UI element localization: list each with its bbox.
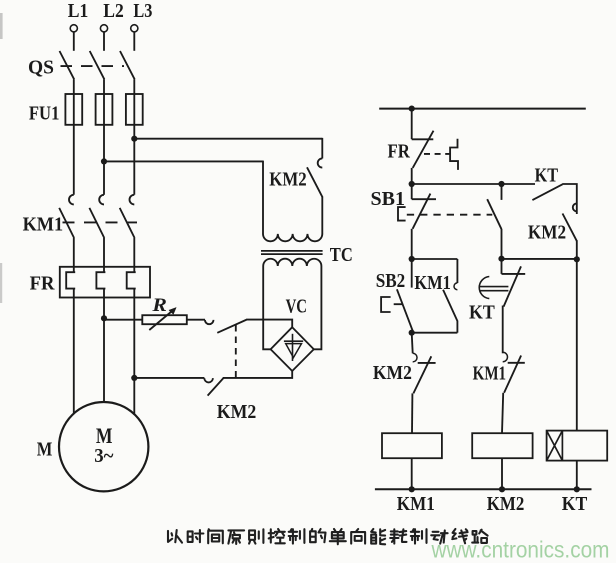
- thermal relay FR heater element phase 3: [127, 272, 136, 288]
- wire phase 2 junction to motor: [103, 318, 105, 402]
- node A junction dot: [409, 181, 415, 187]
- svg-text:KM2: KM2: [528, 222, 566, 244]
- wire TC secondary left to rectifier: [263, 266, 271, 349]
- svg-text:KM2: KM2: [373, 362, 412, 384]
- wire top rail to FR contact: [411, 109, 413, 140]
- rectifier VC bridge diamond: [271, 327, 314, 371]
- wire QS to FU1 pole 1: [73, 79, 75, 94]
- wire junction to resistor R: [104, 319, 142, 321]
- contactor KM1 NO auxiliary contact: [443, 259, 457, 333]
- wire L2 terminal to QS: [103, 32, 105, 51]
- svg-text:KM2: KM2: [487, 493, 525, 515]
- wire QS to FU1 pole 2: [103, 79, 105, 94]
- svg-text:KT: KT: [535, 164, 559, 186]
- relay KT NO contact top right: [532, 184, 576, 214]
- wire FR to motor phase 3 upper: [133, 289, 135, 378]
- junction on L3 phase feeding braking contact: [131, 136, 137, 142]
- switch QS pole 3 blade: [120, 51, 135, 79]
- wire SB1 NO to middle node: [501, 229, 503, 259]
- contactor KM1 main contact pole 2: [89, 195, 104, 238]
- svg-text:FU1: FU1: [29, 102, 60, 124]
- contactor KM1 main contact pole 1: [59, 195, 74, 238]
- motor M circle: [59, 402, 148, 491]
- wire phase 3 junction to KM2 lower contact: [134, 377, 204, 379]
- pushbutton SB2 NO contact: [397, 259, 413, 331]
- contact KM2 upper blade: [217, 319, 247, 332]
- wire L1 terminal to QS: [73, 32, 75, 51]
- svg-text:KM2: KM2: [217, 401, 256, 423]
- pushbutton SB1 actuator: [398, 207, 406, 221]
- svg-text:L3: L3: [133, 0, 152, 22]
- junction node A rail to SB1 NO branch: [498, 181, 504, 187]
- thermal relay FR outline box: [60, 267, 150, 298]
- thermal relay FR heater element phase 1: [66, 272, 75, 288]
- wire node A rail to KT contact: [412, 183, 535, 185]
- wire FU1 to KM1 pole 3: [133, 125, 135, 195]
- wire KM2 upper contact to rectifier plus: [247, 320, 293, 328]
- contact KM2 lower fixed seat: [204, 378, 213, 382]
- wire L2 branch corner to TC primary left: [262, 161, 264, 235]
- svg-text:KM1: KM1: [397, 493, 435, 515]
- wire KM1 aux bottom to SB2 branch: [412, 332, 458, 334]
- svg-text:L2: L2: [103, 0, 124, 22]
- coil KT time relay: [547, 431, 608, 461]
- junction phase 2 to braking resistor: [101, 315, 107, 321]
- wire KM1 to FR pole 3: [133, 238, 135, 273]
- wire KM1 interlock to KM2 coil: [502, 393, 503, 433]
- pushbutton SB1 NO contact: [487, 184, 501, 229]
- junction top rail to FR contact: [409, 106, 415, 112]
- svg-text:QS: QS: [28, 57, 54, 79]
- svg-text:KM1: KM1: [414, 272, 451, 294]
- node B junction dot: [409, 256, 415, 262]
- transformer TC primary winding: [263, 234, 322, 241]
- wire TC secondary right to rectifier: [314, 266, 322, 349]
- svg-text:M: M: [37, 439, 53, 461]
- wire phase 3 junction to motor: [133, 378, 135, 415]
- switch QS pole 2 blade: [90, 51, 105, 79]
- svg-text:L1: L1: [68, 0, 89, 22]
- switch QS pole 1 blade: [60, 51, 75, 79]
- dashed link FR contact to reset bracket: [424, 153, 450, 155]
- svg-text:KM1: KM1: [23, 214, 64, 236]
- resistor R adjustment arrow: [149, 308, 176, 331]
- wire node B to KM1 aux branch: [412, 258, 458, 260]
- scan artifact left edge upper: [0, 13, 3, 39]
- wire L3 terminal to QS: [133, 32, 135, 51]
- svg-text:VC: VC: [286, 296, 307, 318]
- switch QS linkage dashed line: [61, 65, 125, 67]
- svg-text:KT: KT: [562, 493, 588, 515]
- wire FU1 to KM1 pole 2: [103, 125, 105, 195]
- relay KT delay symbol: [479, 277, 508, 299]
- junction KM1 coil on bottom rail: [409, 486, 415, 492]
- contact KM2 upper fixed seat: [205, 320, 214, 324]
- wire FR contact to node A: [411, 168, 413, 184]
- svg-text:TC: TC: [330, 244, 353, 266]
- contactor KM2 NC interlock contact: [412, 333, 436, 394]
- svg-text:3~: 3~: [94, 445, 114, 467]
- wire middle node to right node: [502, 258, 577, 260]
- junction middle node dot: [498, 256, 504, 262]
- fuse FU1 pole 2: [96, 94, 113, 125]
- wire junction L3 to KM2 braking contact: [134, 138, 322, 140]
- thermal relay FR NC contact: [412, 131, 434, 168]
- wire FR to motor phase 2 upper: [103, 289, 105, 319]
- node L2 supply terminal: [100, 25, 107, 32]
- dashed link SB1 actuator to NO contact: [407, 214, 493, 216]
- svg-text:KM1: KM1: [473, 363, 507, 385]
- contact KM2 lower blade: [208, 378, 224, 396]
- svg-text:FR: FR: [388, 140, 411, 162]
- wire right node to KT coil: [576, 259, 578, 430]
- wire KT contact to KM1 NC: [502, 306, 504, 354]
- svg-text:SB2: SB2: [376, 270, 406, 292]
- contactor KM1 main contact pole 3: [120, 195, 135, 238]
- rectifier VC diode symbol: [284, 334, 303, 361]
- wire SB1 NC to node B: [411, 229, 413, 259]
- wire FR to motor phase 1: [73, 289, 75, 414]
- caption text (Chinese) drawn strokes: [168, 529, 488, 544]
- junction phase 3 to braking return: [131, 375, 137, 381]
- wire KM2 coil to bottom rail: [501, 458, 503, 489]
- wire control bottom rail: [375, 488, 592, 490]
- wire KM1 coil to bottom rail: [411, 458, 413, 489]
- scan artifact left edge middle: [0, 263, 2, 303]
- svg-text:R: R: [151, 295, 167, 316]
- contactor KM1 NC interlock contact middle: [503, 352, 525, 393]
- coil KM1: [382, 433, 442, 458]
- contactor KM2 NO holding contact: [563, 214, 577, 260]
- wire FU1 to KM1 pole 1: [73, 125, 75, 195]
- contact KM2 linkage dashed line: [235, 325, 237, 377]
- svg-text:KM2: KM2: [269, 168, 306, 190]
- junction KT coil on bottom rail: [574, 486, 580, 492]
- contact KM2 transformer-side fixed seat: [318, 158, 323, 167]
- junction right node dot: [574, 256, 580, 262]
- wire QS to FU1 pole 3: [133, 79, 135, 94]
- wire control top rail: [379, 108, 586, 110]
- wire KM2 interlock to KM1 coil: [411, 393, 413, 433]
- wire KT coil to bottom rail: [576, 461, 578, 490]
- node L1 supply terminal: [70, 25, 77, 32]
- thermal relay FR reset linkage bracket: [450, 139, 458, 170]
- thermal relay FR heater element phase 2: [96, 272, 105, 288]
- svg-text:www.cntronics.com: www.cntronics.com: [431, 537, 610, 563]
- node L3 supply terminal: [131, 25, 138, 32]
- svg-text:FR: FR: [30, 273, 55, 295]
- contactor KM1 linkage dashed line: [63, 221, 138, 223]
- transformer TC core: [261, 251, 323, 254]
- fuse FU1 pole 3: [126, 94, 143, 125]
- wire KM2 contact to TC primary right: [321, 197, 323, 234]
- pushbutton SB2 actuator: [381, 297, 402, 312]
- junction KM2 coil on bottom rail: [499, 486, 505, 492]
- wire KM1 to FR pole 2: [103, 238, 105, 273]
- wire L3 branch corner into KM2 contact: [321, 138, 323, 159]
- junction below SB2 dot: [409, 330, 415, 336]
- wire KM2 lower contact to rectifier minus: [223, 370, 292, 378]
- resistor R body: [142, 315, 187, 324]
- wire KM1 to FR pole 1: [73, 238, 75, 273]
- relay KT delayed NC contact: [502, 259, 526, 307]
- contact KM2 transformer-side blade: [307, 167, 323, 197]
- coil KM2: [472, 433, 532, 458]
- svg-text:KT: KT: [469, 301, 495, 323]
- transformer TC secondary winding: [263, 259, 321, 266]
- junction on L2 phase feeding transformer: [101, 158, 107, 164]
- wire junction L2 to transformer TC primary: [104, 160, 263, 162]
- wire resistor to KM2 upper contact: [187, 319, 205, 321]
- fuse FU1 pole 1: [65, 94, 82, 125]
- pushbutton SB1 NC contact: [412, 184, 436, 229]
